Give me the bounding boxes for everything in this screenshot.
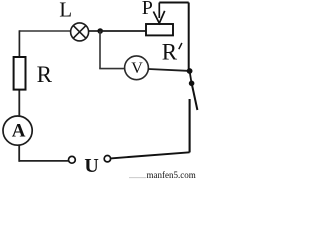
wire junction to switch contact <box>190 71 192 83</box>
junction dot (lamp / pot / voltmeter node) <box>97 28 103 34</box>
wire wiper to top-right corner <box>159 2 188 4</box>
ammeter A <box>3 116 32 145</box>
wire left rail upper (corner down to resistor top) <box>18 30 20 57</box>
svg-text:manfen5.com: manfen5.com <box>147 170 196 180</box>
voltmeter V <box>125 56 149 80</box>
switch blade (open) <box>192 84 198 110</box>
wire voltmeter branch horizontal left <box>99 68 125 70</box>
wire left rail lower (ammeter to bottom corner) <box>18 145 20 162</box>
wire junction to potentiometer <box>100 30 146 32</box>
wire lamp to junction <box>89 30 100 32</box>
wire bottom-right (corner to right terminal) <box>111 152 190 158</box>
right supply terminal <box>104 156 110 162</box>
svg-text:P: P <box>142 0 153 19</box>
switch upper contact dot <box>189 81 195 87</box>
prime mark of R' <box>179 43 182 49</box>
left supply terminal <box>69 156 76 163</box>
wire voltmeter branch vertical <box>99 31 101 69</box>
svg-text:R: R <box>37 62 53 87</box>
svg-text:V: V <box>131 60 143 77</box>
svg-text:L: L <box>59 0 72 22</box>
junction dot (right rail / voltmeter node) <box>187 68 193 74</box>
wire right rail lower (switch to bottom corner) <box>189 99 191 152</box>
watermark underscore <box>129 177 146 179</box>
svg-text:U: U <box>84 155 98 177</box>
wire voltmeter to right rail <box>148 69 187 71</box>
potentiometer P body <box>146 24 173 35</box>
wire resistor to ammeter <box>18 90 20 117</box>
potentiometer wiper arrow <box>153 3 164 24</box>
svg-text:A: A <box>12 120 26 141</box>
resistor R body <box>14 57 26 90</box>
wire right rail upper (corner down to voltmeter node) <box>188 3 190 72</box>
wire top-left horizontal (node to lamp) <box>19 30 70 32</box>
wire bottom-left (left corner to left terminal) <box>19 160 68 162</box>
lamp L <box>71 23 89 41</box>
svg-text:R: R <box>162 40 178 65</box>
